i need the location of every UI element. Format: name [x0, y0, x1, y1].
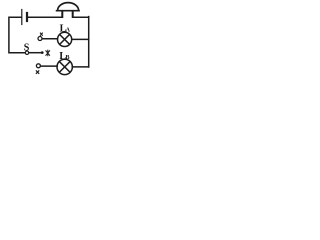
terminal c (open circle)	[36, 64, 40, 68]
mark x below terminal c	[36, 71, 39, 74]
terminal a (open circle)	[38, 37, 42, 41]
junction dot	[41, 51, 44, 54]
wire: terminal c to lamp LB	[41, 65, 58, 67]
mark x above terminal a	[40, 33, 42, 35]
wire: bell right leg to top-right corner	[73, 16, 89, 18]
svg-text:A: A	[66, 27, 71, 33]
switch S pivot (open circle on bottom wire)	[25, 51, 28, 54]
bell (dome with base and legs)	[57, 3, 79, 17]
lamp LA (circle with X)	[58, 32, 72, 46]
mark asterisk at wire end	[46, 50, 50, 56]
battery long plate (positive)	[21, 10, 23, 25]
wire: switch to junction dot	[29, 52, 42, 54]
wire: lamp LB to right vertical	[72, 66, 89, 68]
lamp LB (circle with X)	[57, 59, 72, 74]
battery short plate (negative)	[26, 13, 28, 21]
wire: lamp LA to right vertical	[72, 38, 89, 40]
svg-text:B: B	[66, 55, 70, 61]
wire: top-left horizontal, left vertical and bottom-left segment	[9, 17, 26, 53]
wire: terminal a to lamp LA	[42, 38, 57, 40]
wire: battery to bell left leg	[28, 16, 63, 18]
svg-text:S: S	[24, 42, 30, 53]
wire: right vertical	[88, 17, 90, 67]
